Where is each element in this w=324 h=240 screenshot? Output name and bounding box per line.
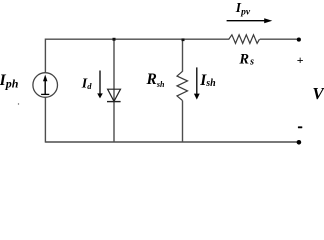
- wire: top rail left segment: [45, 38, 229, 40]
- wire: bottom rail: [45, 141, 297, 143]
- svg-text:Ipv: Ipv: [235, 0, 251, 17]
- svg-text:Iph: Iph: [0, 72, 19, 91]
- resistor Rs zigzag (horizontal, in top rail): [229, 35, 260, 44]
- terminal dot bottom (-): [297, 140, 302, 145]
- junction dot at Rsh branch / top rail: [182, 38, 185, 41]
- current source Iph circle: [33, 73, 58, 98]
- current arrow Id (down): [97, 71, 103, 99]
- wire: left branch above current source: [44, 39, 46, 73]
- wire: diode branch (rail to cathode bar): [113, 39, 115, 101]
- svg-text:Id: Id: [81, 77, 92, 92]
- junction dot at diode branch / top rail: [113, 38, 116, 41]
- wire: left branch below current source: [44, 97, 46, 142]
- wire: top rail right segment after Rs: [260, 38, 298, 40]
- resistor Rsh zigzag (vertical): [177, 71, 188, 100]
- current arrow Ish (down): [194, 67, 200, 99]
- terminal dot top (+): [297, 38, 301, 42]
- wire: diode branch below diode: [113, 102, 115, 142]
- svg-text:Rs: Rs: [238, 52, 254, 68]
- svg-text:+: +: [297, 53, 304, 67]
- svg-text:V: V: [312, 84, 324, 103]
- current source arrow (up) with base crossbar: [41, 75, 49, 95]
- svg-text:Ish: Ish: [199, 72, 216, 89]
- stray speck: [18, 103, 19, 104]
- wire: Rsh branch below resistor: [182, 101, 184, 142]
- svg-text:Rsh: Rsh: [146, 71, 165, 89]
- label minus: [298, 126, 302, 128]
- current arrow Ipv (right): [227, 18, 273, 23]
- diode D triangle (anode, pointing down): [108, 89, 121, 101]
- wire: Rsh branch above resistor: [182, 39, 184, 71]
- diode D cathode bar: [107, 101, 121, 103]
